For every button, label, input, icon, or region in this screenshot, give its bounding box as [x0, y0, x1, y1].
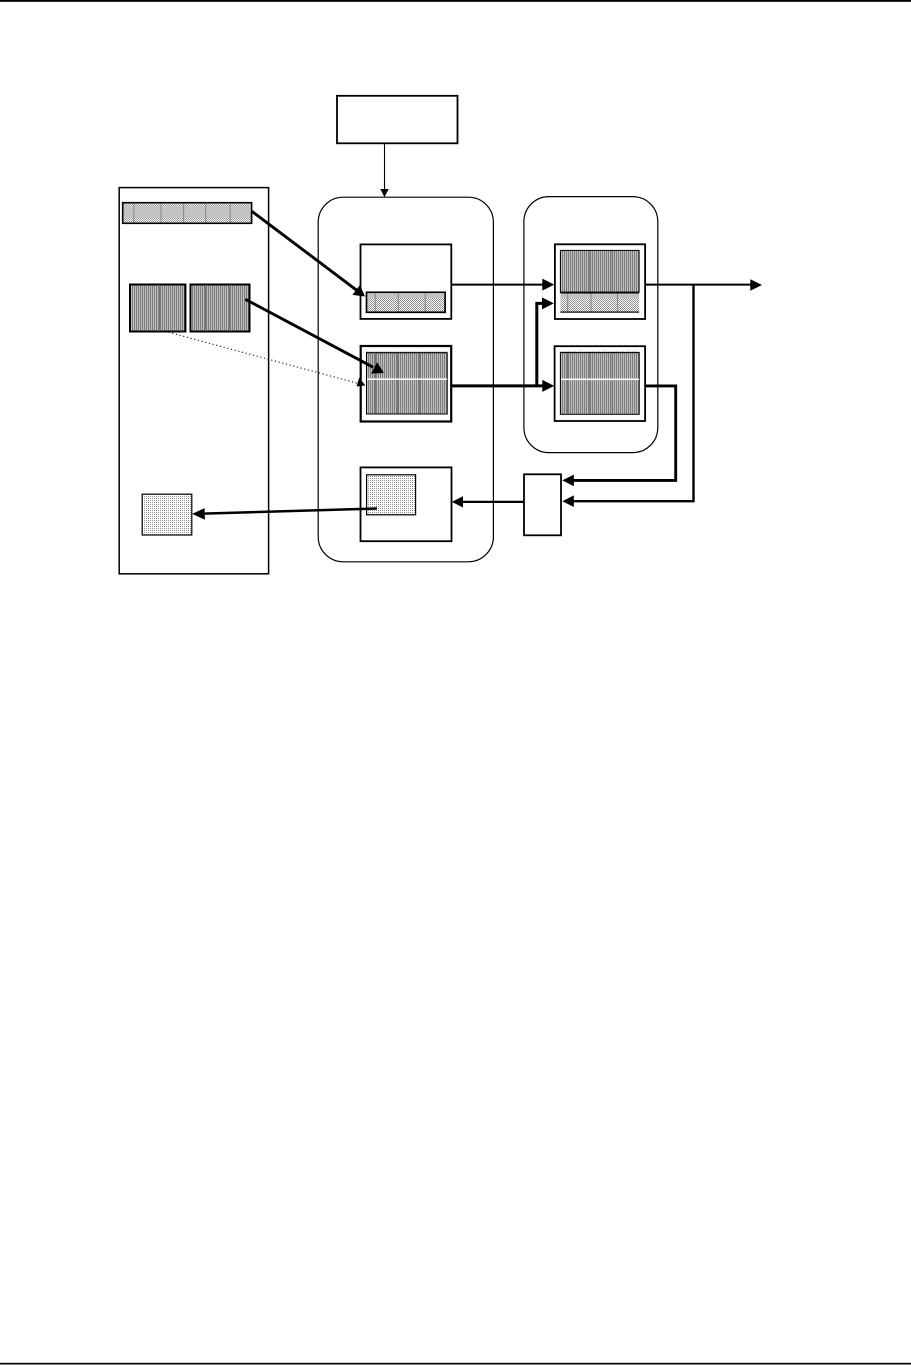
thick arrow: middle middle box to right bottom box: [451, 380, 554, 392]
right rounded group: [524, 197, 658, 453]
footer rule: [0, 1363, 911, 1365]
hatch fill of middle middle box: [367, 353, 448, 415]
arrow: middle top box to right top box: [452, 279, 555, 291]
middle middle box: [361, 346, 452, 422]
hatch fill of right bottom box: [560, 352, 639, 414]
small relay box bottom right: [524, 474, 561, 535]
thick arrow: left bar to middle top box: [252, 211, 365, 296]
left hatch box 1: [130, 285, 185, 332]
wire: right bottom box out right, down, left into small box (upper): [562, 386, 675, 486]
left small dotted box: [142, 494, 192, 535]
header rule: [0, 0, 911, 2]
checker bar in middle top box: [367, 292, 446, 312]
thick arrow: middle bottom dotted box to left dotted box: [192, 508, 377, 520]
right bottom box: [555, 346, 646, 421]
output line from right top box with arrowhead: [645, 279, 762, 291]
left tall rectangle: [119, 188, 268, 574]
middle bottom box: [361, 467, 452, 541]
middle rounded group: [318, 197, 493, 562]
wire: top box to middle group: [384, 144, 386, 191]
top box: [337, 96, 458, 144]
arrow: small box to middle bottom box: [452, 496, 524, 507]
thick arrow: left hatch box to middle middle box: [245, 299, 384, 373]
hatch + checker content of right top box: [560, 250, 639, 312]
thick branch up into right top box lower strip: [537, 297, 554, 386]
dotted box inside middle bottom box: [367, 475, 416, 515]
middle top box: [361, 244, 452, 319]
left top gray bar: [123, 203, 252, 224]
right top box: [555, 244, 645, 319]
left hatch box 2: [191, 285, 250, 332]
dotted arrow: left hatch boxes to middle middle box: [169, 332, 366, 386]
wire: output line branch down, left into small box (lower): [562, 285, 693, 507]
